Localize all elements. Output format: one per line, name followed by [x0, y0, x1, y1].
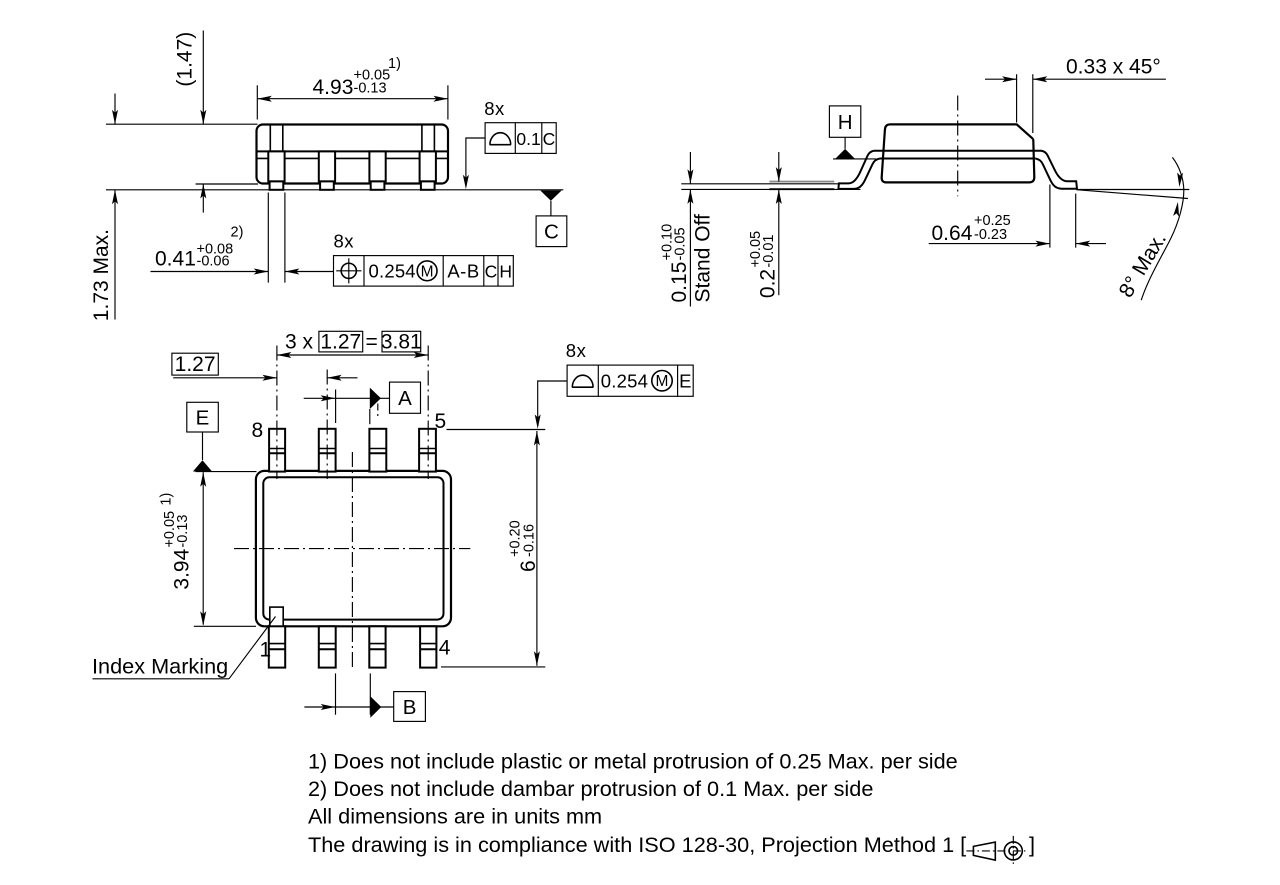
- pin 8: [269, 429, 285, 472]
- body end vertical line left pair: [270, 125, 283, 151]
- dimension 1.27 line left: [173, 377, 277, 379]
- datum B box: [394, 692, 426, 722]
- body top extension line: [196, 471, 257, 473]
- body bottom extension line: [194, 625, 256, 627]
- lead thickness upper projection line gray: [769, 181, 834, 183]
- dimension 6 line: [536, 431, 538, 666]
- svg-text:2) Does not include dambar pro: 2) Does not include dambar protrusion of…: [308, 776, 873, 801]
- package vertical centerline: [351, 452, 353, 670]
- svg-text:4: 4: [439, 637, 451, 660]
- svg-text:8x: 8x: [334, 230, 355, 251]
- svg-text:1.27: 1.27: [320, 331, 361, 354]
- boxed 1.27: [319, 331, 363, 352]
- pin 2: [319, 626, 336, 667]
- dimension 1.73 Max lower line: [114, 190, 116, 320]
- svg-text:8x: 8x: [484, 98, 505, 119]
- lead foot pin3: [371, 181, 385, 189]
- right lead gull wing: [1036, 151, 1077, 189]
- top reference line: [106, 123, 258, 125]
- index marking rectangle: [270, 607, 283, 626]
- index marking leader: [229, 617, 276, 679]
- position symbol: [341, 263, 356, 278]
- svg-text:M: M: [656, 373, 669, 390]
- left lead gull wing: [838, 151, 879, 189]
- svg-text:C: C: [543, 129, 556, 149]
- dimension (1.47) line lower: [202, 184, 204, 213]
- dimension 0.33 extension lines: [1017, 74, 1033, 133]
- svg-text:(1.47): (1.47): [174, 32, 197, 87]
- feature control frame profile 0.254 M E: [567, 365, 693, 396]
- feature control frame profile 0.1 C: [485, 123, 556, 154]
- dimension 4.93 extension line right: [447, 85, 449, 119]
- svg-text:The drawing is in compliance w: The drawing is in compliance with ISO 12…: [308, 832, 966, 857]
- profile surface symbol: [490, 133, 511, 145]
- pin 3: [369, 626, 385, 667]
- lead shoulder pin3: [369, 151, 385, 181]
- dimension 0.2 arrows: [778, 152, 780, 182]
- pin 5 centerline: [427, 346, 429, 480]
- extension line from pin 5: [447, 429, 546, 431]
- svg-text:1) Does not include plastic or: 1) Does not include plastic or metal pro…: [308, 749, 958, 774]
- datum H leader: [844, 137, 846, 149]
- svg-text:-0.13: -0.13: [354, 81, 387, 97]
- pin 2 edge extension: [335, 673, 337, 714]
- M circle modifier: [417, 261, 437, 281]
- dimension 0.41 line right to frame: [285, 271, 334, 273]
- datum target A line: [304, 397, 390, 399]
- leader from E frame: [538, 381, 567, 426]
- svg-text:0.33 x 45°: 0.33 x 45°: [1066, 56, 1161, 79]
- seating plane reference line: [681, 188, 860, 190]
- body bottom extension line: [196, 183, 258, 185]
- leader from profile frame to seating plane: [466, 138, 485, 186]
- pin 6 edge extension: [369, 409, 371, 424]
- lead tilt 8 degree line: [1076, 190, 1188, 199]
- feature control frame position 0.254 M A-B C H: [334, 256, 514, 287]
- svg-text:0.41: 0.41: [155, 248, 196, 271]
- package body inner outline: [263, 477, 443, 619]
- svg-text:E: E: [196, 406, 210, 429]
- leadframe upper line through body: [874, 150, 1042, 152]
- dimension 0.64 line right: [1076, 243, 1106, 245]
- dambar lines top pins: [269, 448, 436, 450]
- svg-text:0.254: 0.254: [601, 371, 648, 392]
- svg-text:]: ]: [1029, 832, 1035, 857]
- dimension 0.64 line left: [929, 243, 1050, 245]
- extension line from pin 4: [441, 666, 545, 668]
- datum C leader: [550, 201, 552, 216]
- dimension 1.73 Max upper line: [114, 94, 116, 125]
- datum A solid triangle: [370, 388, 381, 409]
- mold parting line: [257, 150, 448, 152]
- svg-text:1): 1): [388, 56, 401, 72]
- svg-text:1: 1: [260, 639, 272, 662]
- dimension 0.41 line left: [151, 271, 269, 273]
- datum B solid triangle: [370, 696, 381, 717]
- pin 3 edge extension: [369, 673, 371, 714]
- svg-text:0.64: 0.64: [932, 222, 973, 245]
- seating plane extension right: [1076, 189, 1189, 191]
- pin 5: [419, 429, 436, 472]
- pin 4: [420, 626, 436, 667]
- svg-text:-0.06: -0.06: [197, 253, 230, 269]
- svg-text:1.73 Max.: 1.73 Max.: [90, 229, 113, 321]
- svg-text:All dimensions are in units mm: All dimensions are in units mm: [308, 803, 602, 828]
- svg-text:A-B: A-B: [447, 261, 479, 282]
- package horizontal centerline: [234, 548, 470, 550]
- lead foot pin2: [320, 181, 334, 189]
- dimension 3.94 line: [202, 472, 204, 624]
- svg-text:2): 2): [231, 225, 244, 241]
- datum H feature line: [833, 158, 876, 160]
- index marking underline: [93, 678, 230, 680]
- dimension (1.47) line upper: [202, 31, 204, 125]
- pin 7 edge extension: [335, 390, 337, 424]
- boxed 1.27 left: [172, 353, 218, 375]
- datum H triangle: [835, 149, 856, 159]
- svg-text:M: M: [421, 263, 434, 280]
- dimension 3x1.27 line: [277, 354, 428, 356]
- projection symbol centerline: [966, 850, 1026, 852]
- dimension 0.64 extension lines: [1050, 185, 1076, 248]
- body end vertical line right pair: [422, 125, 435, 151]
- lead thickness lower projection line: [769, 188, 834, 190]
- M circle modifier: [652, 371, 672, 391]
- svg-text:H: H: [838, 111, 853, 134]
- datum A box: [390, 382, 421, 413]
- datum E triangle: [193, 460, 212, 471]
- lead exit line: [257, 157, 448, 159]
- projection symbol cone: [973, 842, 995, 860]
- pin 6: [369, 429, 386, 472]
- svg-text:A: A: [398, 387, 412, 410]
- svg-text:E: E: [679, 371, 692, 392]
- svg-text:-0.23: -0.23: [974, 227, 1007, 243]
- projection symbol vertical centerline: [1012, 836, 1014, 866]
- profile surface symbol: [572, 375, 593, 387]
- dimension 4.93 line: [257, 98, 448, 100]
- datum target B line: [304, 706, 393, 708]
- dimension 4.93 extension line left: [256, 85, 258, 119]
- svg-text:0.1: 0.1: [516, 129, 540, 149]
- boxed 3.81: [382, 331, 421, 352]
- projection symbol circles: [1004, 842, 1022, 860]
- lead foot pin4: [421, 181, 435, 189]
- svg-text:1.27: 1.27: [175, 353, 216, 376]
- lead shoulder pin4: [420, 151, 436, 181]
- side view centerline: [957, 96, 959, 197]
- svg-text:8: 8: [252, 419, 264, 442]
- stand off reference line: [681, 183, 838, 185]
- angle arc 8 degrees: [1141, 157, 1184, 300]
- dimension 0.33 line right: [1033, 78, 1166, 80]
- svg-text:0.254: 0.254: [369, 261, 416, 282]
- seating plane line C: [106, 189, 563, 191]
- svg-text:H: H: [499, 261, 512, 281]
- pin 7 centerline: [326, 370, 328, 480]
- svg-text:C: C: [544, 221, 559, 244]
- svg-text:8x: 8x: [566, 340, 587, 361]
- svg-text:C: C: [485, 261, 498, 281]
- pin 8 centerline: [276, 346, 278, 480]
- lead shoulder pin1: [268, 151, 284, 181]
- datum C box: [536, 216, 567, 247]
- package body side outline: [882, 124, 1035, 182]
- svg-text:3 x: 3 x: [285, 331, 314, 354]
- svg-text:=: =: [366, 331, 378, 354]
- leadframe lower line through body: [880, 158, 1036, 160]
- dimension 0.41 extension lines: [268, 193, 285, 283]
- pin 1: [269, 626, 285, 667]
- dimension 1.27 line right: [327, 377, 357, 379]
- svg-text:5: 5: [435, 410, 447, 433]
- svg-text:4.93: 4.93: [313, 76, 354, 99]
- datum E leader: [202, 432, 204, 460]
- datum E box: [187, 402, 219, 432]
- package body outer outline: [256, 471, 451, 626]
- datum C triangle: [540, 191, 561, 201]
- dimension 0.33 line left: [985, 78, 1017, 80]
- pin 6 centerline stub: [377, 404, 379, 420]
- svg-text:3.81: 3.81: [381, 331, 422, 354]
- pin 7: [319, 429, 336, 472]
- dambar lines bottom pins: [269, 643, 437, 645]
- svg-text:Index Marking: Index Marking: [92, 654, 228, 679]
- lead shoulder pin2: [319, 151, 335, 181]
- datum H box: [829, 106, 860, 137]
- dimension 0.15 stand off arrows: [689, 152, 691, 184]
- package body front outline: [257, 125, 449, 184]
- lead foot pin1: [270, 181, 284, 189]
- svg-text:B: B: [403, 696, 417, 719]
